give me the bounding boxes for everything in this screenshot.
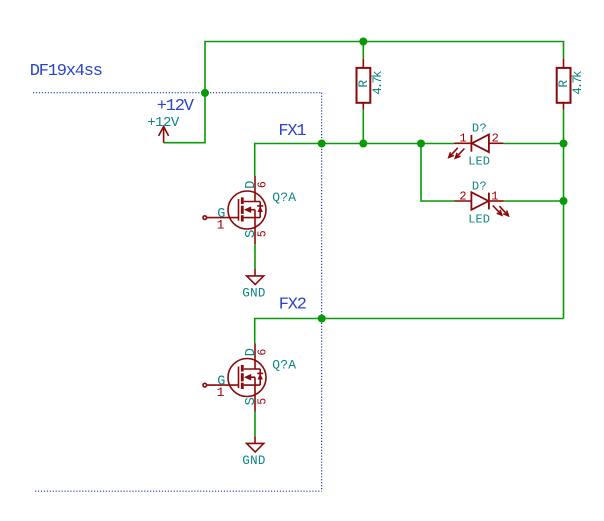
- svg-text:+12V: +12V: [157, 97, 195, 116]
- svg-text:1: 1: [217, 385, 225, 400]
- svg-text:1: 1: [217, 218, 225, 233]
- svg-text:2: 2: [492, 131, 499, 145]
- svg-text:LED: LED: [468, 154, 490, 168]
- svg-text:GND: GND: [242, 286, 265, 300]
- svg-text:+12V: +12V: [147, 115, 180, 131]
- svg-text:2: 2: [459, 190, 466, 204]
- svg-text:5: 5: [256, 398, 269, 405]
- svg-text:4.7k: 4.7k: [571, 71, 585, 95]
- svg-text:LED: LED: [468, 212, 490, 226]
- svg-text:FX1: FX1: [278, 122, 306, 141]
- svg-text:6: 6: [256, 349, 269, 356]
- svg-text:D?: D?: [472, 179, 487, 193]
- svg-text:6: 6: [256, 181, 269, 188]
- svg-text:1: 1: [460, 132, 467, 146]
- svg-text:Q?A: Q?A: [272, 358, 296, 373]
- svg-text:R: R: [556, 80, 571, 88]
- svg-text:D?: D?: [472, 121, 487, 135]
- svg-text:R: R: [356, 80, 371, 88]
- svg-text:4.7k: 4.7k: [371, 71, 385, 95]
- svg-text:GND: GND: [242, 454, 265, 468]
- svg-text:5: 5: [256, 230, 269, 237]
- svg-text:FX2: FX2: [279, 296, 306, 315]
- svg-text:1: 1: [491, 190, 498, 204]
- svg-text:Q?A: Q?A: [272, 190, 296, 205]
- svg-text:DF19x4ss: DF19x4ss: [30, 62, 102, 81]
